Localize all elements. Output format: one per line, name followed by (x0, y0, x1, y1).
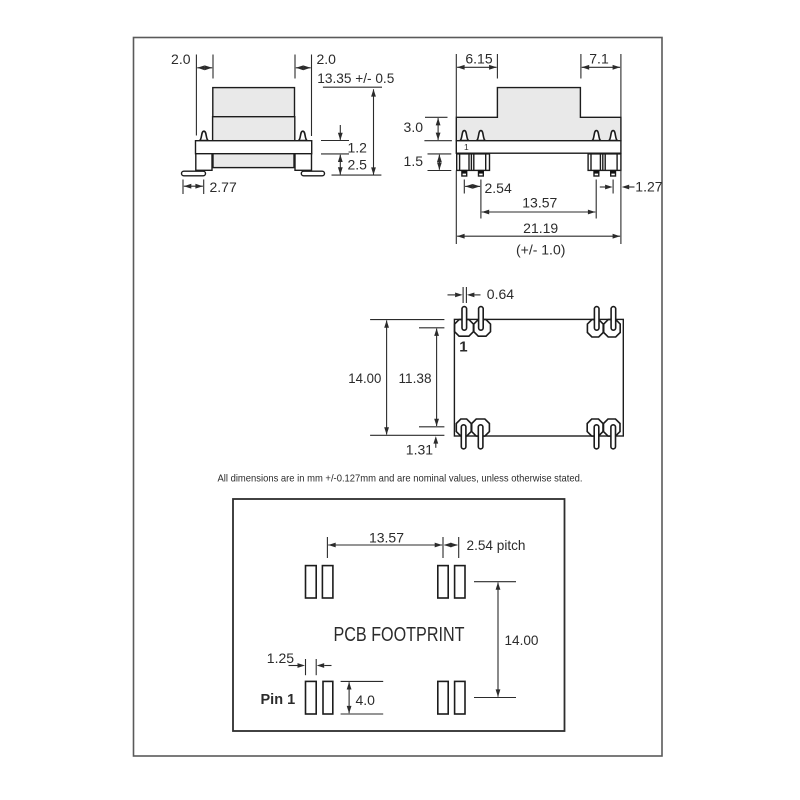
dimension 1.5 (pin height) (404, 153, 452, 170)
dimension 21.19 (front view overall) (457, 220, 620, 257)
side view lower gray block (213, 154, 294, 168)
footprint pad BL2 (323, 681, 333, 714)
side view body upper block (213, 88, 295, 117)
front view bump pin3 (592, 131, 601, 141)
bottom view pad BR1 (587, 419, 603, 436)
dimension 14.00 (footprint) (474, 582, 539, 698)
page frame (134, 38, 663, 757)
bottom view pin slot 4 (611, 307, 616, 331)
bottom view pin slot 2 (479, 307, 484, 331)
side view base plate (196, 141, 312, 154)
front view foot pin4 (610, 170, 615, 176)
svg-text:1.25: 1.25 (267, 650, 294, 666)
svg-text:2.54: 2.54 (485, 180, 512, 196)
front view right pin group (588, 154, 621, 171)
dimension 2.54 (front view pin pitch) (464, 180, 512, 219)
dimension 1.31 (bottom view) (406, 436, 438, 457)
front view body outline (456, 88, 621, 141)
front view bump pin4 (609, 131, 618, 141)
footprint pad TL2 (322, 566, 333, 598)
bottom view pin slot 3 (594, 307, 599, 331)
bottom view pin slot 7 (594, 425, 599, 449)
dimension 1.2 (base plate thickness) (321, 125, 367, 155)
footprint pad TR1 (438, 566, 448, 598)
bottom view pad BL2 (472, 419, 490, 436)
front view foot pin3 (594, 170, 599, 176)
side view clip bump left (199, 131, 208, 140)
svg-text:(+/- 1.0): (+/- 1.0) (516, 241, 565, 257)
svg-text:2.5: 2.5 (348, 156, 368, 172)
dimension 2.5 (standoff) (338, 155, 367, 175)
dimension 2.0 left (side view) (171, 51, 213, 136)
svg-text:1.5: 1.5 (404, 153, 424, 169)
svg-text:2.0: 2.0 (317, 51, 337, 67)
svg-text:Pin 1: Pin 1 (261, 692, 296, 708)
front view base plate (456, 141, 621, 154)
bottom view pad TL2 (474, 320, 491, 337)
dimension 7.1 (front view) (581, 50, 621, 244)
dimension 14.00 (bottom view height) (348, 320, 444, 436)
svg-text:13.57: 13.57 (369, 530, 404, 546)
dimension 13.35 +/- 0.5 (side view height) (317, 70, 394, 175)
dimension 4.0 (footprint pad height) (341, 681, 384, 714)
dimension 13.57 (front view row pitch) (482, 180, 597, 219)
bottom view pin slot 1 (462, 307, 467, 331)
svg-text:6.15: 6.15 (465, 50, 492, 66)
footprint pad BR2 (455, 681, 465, 714)
svg-text:0.64: 0.64 (487, 286, 514, 302)
front view bump pin2 (476, 131, 485, 141)
footprint pad BL1 (306, 681, 317, 714)
svg-text:14.00: 14.00 (348, 370, 381, 386)
svg-text:1: 1 (464, 142, 469, 152)
svg-text:1.2: 1.2 (348, 139, 368, 155)
dimension 2.54 pitch (footprint) (444, 537, 526, 558)
svg-text:PCB FOOTPRINT: PCB FOOTPRINT (334, 623, 465, 646)
bottom view pad TL1 (455, 320, 474, 337)
svg-text:1.31: 1.31 (406, 441, 433, 457)
front view foot pin2 (478, 170, 483, 176)
dimension 6.15 (front view) (456, 50, 497, 244)
bottom view pin slot 6 (478, 425, 483, 449)
svg-text:13.57: 13.57 (522, 195, 557, 211)
svg-text:14.00: 14.00 (505, 632, 539, 648)
svg-text:2.54 pitch: 2.54 pitch (467, 537, 526, 553)
front view left pin group (457, 154, 490, 171)
bottom view package outline (454, 319, 623, 436)
side view left foot block (196, 154, 212, 171)
bottom view pad BL1 (456, 419, 471, 436)
svg-text:3.0: 3.0 (404, 119, 424, 135)
front view bump pin1 (460, 131, 469, 141)
side view body lower block (213, 117, 295, 141)
side view clip bump right (298, 131, 307, 140)
dimension 13.57 (footprint) (327, 530, 443, 559)
dimension 2.77 (foot pad length) (183, 179, 237, 195)
bottom view pad TR2 (604, 320, 621, 337)
svg-text:1: 1 (459, 339, 467, 356)
dimension 1.27 (front view) (600, 178, 663, 194)
dimension 1.25 (footprint pad width) (267, 650, 332, 675)
bottom view pad BR2 (604, 419, 621, 436)
svg-text:11.38: 11.38 (399, 370, 432, 386)
svg-text:All dimensions are in mm +/-0.: All dimensions are in mm +/-0.127mm and … (218, 472, 583, 484)
side view right foot pad (301, 171, 324, 176)
svg-text:21.19: 21.19 (523, 220, 558, 236)
footprint pad TL1 (306, 566, 317, 598)
svg-text:1.27: 1.27 (635, 178, 662, 194)
svg-text:4.0: 4.0 (356, 692, 376, 708)
footprint box (233, 499, 565, 731)
side view left foot pad (182, 171, 206, 176)
footprint pad TR2 (455, 566, 465, 598)
svg-text:7.1: 7.1 (589, 50, 609, 66)
bottom view pin slot 5 (461, 425, 466, 449)
svg-text:2.0: 2.0 (171, 51, 191, 67)
dimension 0.64 (pin width) (448, 286, 515, 303)
bottom view pad TR1 (587, 320, 603, 337)
dimension 3.0 (shoulder height) (404, 117, 452, 140)
svg-text:13.35 +/- 0.5: 13.35 +/- 0.5 (317, 70, 394, 86)
front view foot pin1 (462, 170, 467, 176)
footprint pad BR1 (438, 681, 448, 714)
dimension 2.0 right (side view) (295, 51, 336, 136)
side view right foot block (295, 154, 312, 171)
dimension 11.38 (bottom view pin span) (399, 328, 445, 427)
bottom view pin slot 8 (611, 425, 616, 449)
svg-text:2.77: 2.77 (210, 179, 237, 195)
